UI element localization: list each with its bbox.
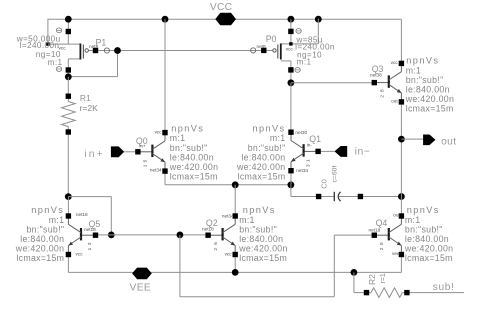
junction net34-Q2 (232, 181, 239, 188)
svg-text:net38: net38 (370, 72, 382, 77)
wire P1 gate-drain vert (117, 51, 119, 77)
svg-text:bn:"sub!": bn:"sub!" (406, 75, 444, 85)
wire sub drop (353, 272, 355, 292)
wire net38 to Q3 base (291, 82, 374, 84)
wire Q5 collector (67, 197, 69, 216)
svg-text:bn:"sub!": bn:"sub!" (170, 143, 208, 153)
svg-text:net18: net18 (76, 212, 88, 217)
svg-text:r=1: r=1 (380, 273, 387, 283)
resistor R1 (62, 93, 99, 135)
svg-text:3: 3 (87, 242, 92, 245)
wire C0 right (339, 196, 402, 198)
value labels Q5 (15, 205, 65, 263)
svg-text:vee: vee (392, 251, 400, 256)
wire net18 rise (333, 235, 335, 297)
junction gate rail (114, 47, 121, 54)
wire P1 drain horiz (68, 58, 80, 60)
svg-text:lcmax=15m: lcmax=15m (406, 104, 454, 114)
value labels Q4 (404, 205, 454, 263)
svg-text:net34: net34 (222, 213, 234, 218)
svg-text:net18: net18 (369, 227, 381, 232)
junction VCC-P1 (65, 16, 72, 23)
wire Q2 collector (234, 185, 236, 216)
svg-text:c=60f: c=60f (332, 166, 339, 183)
junction tail node (65, 193, 72, 200)
wire Q1 emitter drop (290, 171, 292, 185)
svg-text:VCC: VCC (210, 2, 232, 13)
wire P0 source drop (290, 19, 292, 44)
transistor Q5 (66, 212, 101, 257)
svg-text:net34: net34 (150, 168, 162, 173)
VEE port (130, 268, 152, 294)
junction out-C0 (398, 193, 405, 200)
svg-text:2: 2 (213, 248, 218, 251)
svg-text:net8: net8 (89, 44, 99, 49)
junction net18 drop (177, 232, 184, 239)
value labels Q3 (405, 56, 455, 114)
svg-text:8: 8 (379, 242, 384, 245)
svg-text:m:1: m:1 (297, 57, 312, 66)
svg-text:P0: P0 (266, 34, 277, 44)
transistor P1 (16, 28, 110, 73)
wire out pin (401, 138, 423, 140)
svg-text:in+: in+ (84, 149, 105, 160)
svg-text:out: out (393, 213, 400, 218)
wire P1 source drop (67, 19, 69, 44)
junction VCC-P0 bulk (315, 16, 322, 23)
pin in+ (84, 146, 124, 159)
junction VCC-P0 (288, 16, 295, 23)
wire net34 row (165, 184, 291, 186)
svg-text:le:840.00n: le:840.00n (241, 152, 285, 162)
svg-text:bn:"sub!": bn:"sub!" (405, 224, 443, 234)
svg-text:lcmax=15m: lcmax=15m (238, 172, 286, 182)
svg-text:le:840.00n: le:840.00n (239, 234, 283, 244)
svg-text:npnVs: npnVs (406, 56, 439, 66)
wire gate rail net8 (88, 50, 272, 52)
svg-text:vcc: vcc (76, 251, 84, 256)
wire P0 drain horiz (281, 60, 291, 62)
svg-text:8: 8 (380, 89, 385, 92)
wire in+ to Q0 base (124, 151, 138, 153)
value labels Q0 (169, 124, 219, 182)
wire Q0 collector (164, 19, 166, 132)
svg-text:le:840.00n: le:840.00n (406, 85, 450, 95)
svg-text:m:1: m:1 (49, 215, 65, 225)
wire net18 drop (179, 235, 181, 297)
svg-text:we:420.00n: we:420.00n (404, 244, 454, 254)
wire R1 top (67, 77, 69, 102)
junction VEE-Q2 (232, 269, 239, 276)
svg-text:npnVs: npnVs (243, 205, 276, 215)
wire C0 left (291, 196, 334, 198)
junction Q5 base (108, 232, 115, 239)
wire tail vert to Q5 base (110, 197, 112, 235)
transistor P0 (251, 29, 335, 73)
svg-text:5: 5 (143, 159, 148, 162)
pin out (423, 135, 456, 148)
svg-text:in-: in- (307, 142, 313, 147)
junction P0 drain net38 (288, 79, 295, 86)
wire P0 bulk/source (281, 43, 319, 45)
wire VEE rail (68, 271, 401, 273)
junction VCC-Q0 (162, 16, 169, 23)
svg-text:net18: net18 (84, 227, 96, 232)
svg-text:npnVs: npnVs (31, 205, 64, 215)
value labels Q1 (236, 124, 286, 182)
svg-text:vcc: vcc (155, 130, 163, 135)
svg-text:npnVs: npnVs (407, 205, 440, 215)
svg-text:m:1: m:1 (170, 133, 186, 143)
svg-text:npnVs: npnVs (171, 124, 204, 134)
svg-text:m:1: m:1 (239, 215, 255, 225)
svg-text:2: 2 (379, 247, 384, 250)
wire P1 drain drop (67, 59, 69, 77)
svg-text:vcc: vcc (286, 46, 294, 51)
wire Q4 emitter (400, 255, 402, 273)
wire Q0 emitter drop (164, 171, 166, 185)
svg-text:sub!: sub! (433, 282, 455, 293)
wire P1 bulk/source (48, 43, 81, 45)
transistor Q1 (288, 130, 321, 174)
wire Q4 collector (400, 197, 402, 217)
wire sub horiz right (402, 292, 464, 294)
wire net34 to C0 (290, 185, 292, 197)
svg-text:lcmax=15m: lcmax=15m (16, 253, 64, 263)
value labels Q2 (238, 205, 288, 263)
svg-text:1: 1 (87, 247, 92, 250)
transistor Q4 (369, 213, 405, 258)
pin in- (335, 146, 371, 158)
junction out pin (398, 136, 405, 143)
svg-text:R2: R2 (367, 274, 377, 285)
svg-text:1: 1 (143, 164, 148, 167)
svg-text:C0: C0 (319, 179, 328, 189)
svg-text:we:420.00n: we:420.00n (405, 94, 455, 104)
svg-text:l=240.00n: l=240.00n (20, 41, 60, 50)
wire Q3 emitter col (400, 102, 402, 197)
svg-text:vcc: vcc (391, 60, 399, 65)
svg-text:bn:"sub!": bn:"sub!" (248, 143, 286, 153)
wire net18 to Q4 base (334, 234, 374, 236)
wire R1 bottom (67, 127, 69, 197)
svg-text:net34: net34 (296, 168, 308, 173)
svg-text:6: 6 (213, 242, 218, 245)
wire VCC rail (48, 18, 402, 20)
wire P0 bulk stub (317, 19, 319, 44)
wire Q1 base to in- (318, 150, 334, 152)
svg-text:we:420.00n: we:420.00n (169, 162, 219, 172)
wire P1 bulk stub (47, 19, 49, 44)
svg-text:m:1: m:1 (48, 58, 63, 67)
wire tail horiz (68, 196, 111, 198)
svg-text:we:420.00n: we:420.00n (236, 162, 286, 172)
transistor Q2 (202, 213, 238, 257)
svg-text:net30: net30 (295, 130, 307, 135)
svg-text:1: 1 (306, 159, 311, 162)
VCC port (210, 2, 236, 25)
svg-text:m:1: m:1 (405, 215, 421, 225)
wire VCC corner to Q3 (400, 19, 402, 63)
svg-text:m:1: m:1 (406, 65, 422, 75)
wire P0 drain drop (290, 61, 292, 83)
svg-text:we:420.00n: we:420.00n (15, 244, 65, 254)
svg-text:le:840.00n: le:840.00n (405, 234, 449, 244)
wire Q2 emitter (234, 255, 236, 273)
wire net18 row (96, 234, 209, 236)
svg-text:lcmax=15m: lcmax=15m (239, 253, 287, 263)
svg-text:le:840.00n: le:840.00n (20, 234, 64, 244)
svg-text:net8: net8 (257, 44, 267, 49)
svg-text:Q4: Q4 (376, 218, 388, 228)
svg-text:bn:"sub!": bn:"sub!" (26, 224, 64, 234)
junction net34-Q1 (288, 181, 295, 188)
svg-text:3: 3 (306, 164, 311, 167)
capacitor C0 (316, 166, 363, 202)
svg-text:2: 2 (380, 95, 385, 98)
svg-text:lcmax=15m: lcmax=15m (170, 172, 218, 182)
svg-text:VEE: VEE (130, 283, 152, 294)
svg-text:lcmax=15m: lcmax=15m (405, 253, 453, 263)
junction VEE-sub (351, 269, 358, 276)
svg-text:out: out (441, 136, 456, 147)
svg-text:m:1: m:1 (270, 133, 286, 143)
transistor Q3 (370, 60, 404, 105)
transistor Q0 (135, 130, 168, 174)
wire P1 gate-drain horiz (68, 76, 117, 78)
svg-text:out: out (391, 99, 398, 104)
svg-text:npnVs: npnVs (252, 124, 285, 134)
wire Q5 emitter (67, 255, 69, 273)
resistor R2 (364, 273, 410, 297)
wire net18 bottom (180, 296, 334, 298)
wire Q1 collector (290, 83, 292, 133)
svg-text:le:840.00n: le:840.00n (170, 152, 214, 162)
junction P1 drain (65, 73, 72, 80)
wire sub horiz left (354, 292, 371, 294)
svg-text:R1: R1 (80, 93, 91, 103)
svg-text:bn:"sub!": bn:"sub!" (239, 224, 277, 234)
svg-text:r=2K: r=2K (80, 103, 99, 113)
svg-text:vcc: vcc (225, 251, 233, 256)
svg-text:in−: in− (355, 147, 371, 158)
svg-text:in+: in+ (139, 144, 146, 149)
svg-text:net18: net18 (202, 227, 214, 232)
svg-text:we:420.00n: we:420.00n (238, 244, 288, 254)
